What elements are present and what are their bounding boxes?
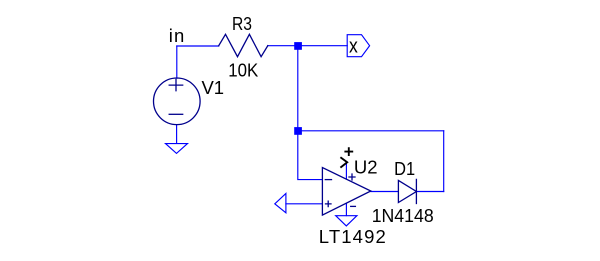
svg-text:D1: D1 xyxy=(394,158,415,179)
svg-text:x: x xyxy=(349,36,358,58)
svg-text:LT1492: LT1492 xyxy=(319,226,386,247)
svg-text:V1: V1 xyxy=(201,77,224,98)
svg-text:in: in xyxy=(169,25,185,46)
svg-text:10K: 10K xyxy=(228,60,259,81)
svg-text:R3: R3 xyxy=(232,13,252,34)
svg-text:U2: U2 xyxy=(354,157,378,178)
svg-text:1N4148: 1N4148 xyxy=(372,205,434,226)
